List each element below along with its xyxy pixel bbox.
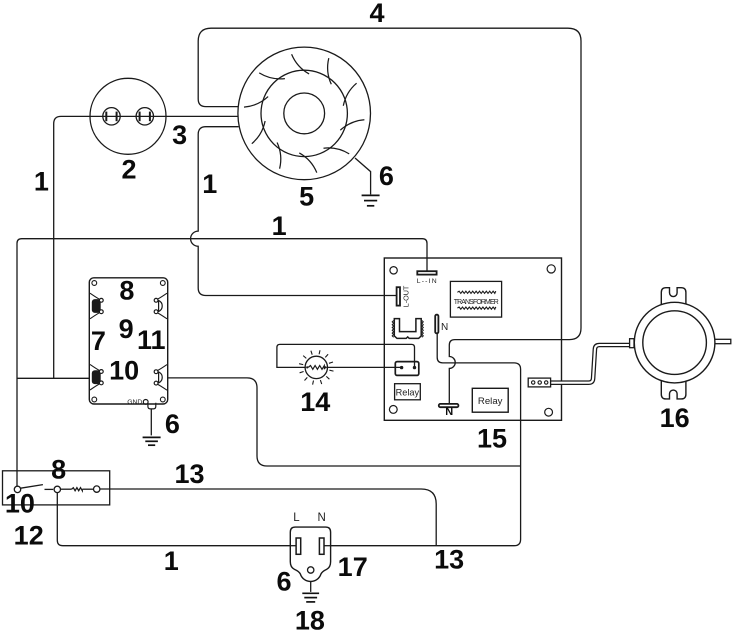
- svg-text:1: 1: [202, 169, 217, 199]
- svg-text:N: N: [318, 512, 326, 524]
- wire: fan ground lead: [355, 158, 371, 194]
- svg-text:L: L: [293, 512, 300, 524]
- L-OUT terminal bar: [397, 287, 400, 305]
- N terminal bar: [435, 315, 438, 334]
- fan blower 5: [238, 47, 371, 180]
- wire 3: plug 2 to fan, wire 1 down left to terminal block row: [54, 116, 239, 378]
- 3-pin connector on board: [528, 378, 550, 387]
- terminal upper-right: [156, 293, 167, 300]
- ground 6: fan motor earth: [362, 195, 380, 205]
- svg-text:10: 10: [109, 356, 139, 386]
- svg-text:L-OUT: L-OUT: [402, 285, 411, 307]
- small texts: [127, 278, 499, 406]
- svg-text:7: 7: [91, 326, 106, 356]
- plug 2: round appliance coupler with two pin receptacles: [90, 78, 166, 154]
- wire: fan bottom terminal down (hop over wire 1) to board L-OUT: [191, 127, 397, 296]
- relay box small: [395, 384, 421, 400]
- svg-text:1: 1: [272, 211, 287, 241]
- wire 1: switch middle terminal down, right to mains plug L slot: [57, 493, 296, 546]
- N bottom terminal bar: [439, 404, 459, 407]
- 2-pin connector on board: [395, 362, 419, 376]
- svg-text:3: 3: [172, 120, 187, 150]
- svg-text:11: 11: [137, 325, 166, 355]
- wire 1: long horizontal feed, left vertical down to switch, right end to board L-IN: [17, 239, 427, 487]
- bottom mounting tab: [661, 378, 686, 399]
- svg-text:12: 12: [14, 521, 44, 551]
- 2-core cable from board 3-pin connector to motor 16: [551, 345, 631, 383]
- switch blade: [21, 485, 43, 489]
- svg-text:6: 6: [165, 409, 180, 439]
- svg-text:GND: GND: [127, 399, 142, 406]
- svg-text:5: 5: [299, 182, 314, 212]
- svg-text:16: 16: [660, 403, 690, 433]
- L-IN terminal bar: [417, 271, 436, 274]
- svg-text:6: 6: [276, 567, 291, 597]
- svg-text:15: 15: [477, 424, 507, 454]
- motor body: [634, 302, 715, 383]
- heatsink bracket: [394, 319, 421, 339]
- thermal fuse: [61, 488, 72, 490]
- svg-text:1: 1: [164, 546, 179, 576]
- control board 15: [384, 258, 561, 420]
- ground 6: terminal block GND earth: [143, 437, 161, 445]
- wire: lamp loop upper run to 2-pin connector right pin: [277, 344, 415, 367]
- ground 18: mains plug earth: [302, 593, 319, 602]
- svg-text:Relay: Relay: [396, 387, 420, 397]
- relay box large: [472, 388, 508, 412]
- svg-text:N: N: [445, 406, 453, 418]
- wire 13: switch fuse terminal right, down to neutral bottom run: [100, 489, 436, 546]
- heatsink fins left: [392, 321, 393, 338]
- lamp 14: [299, 350, 333, 384]
- right stub: [712, 339, 731, 343]
- svg-text:L--IN: L--IN: [417, 278, 438, 285]
- svg-text:8: 8: [119, 276, 134, 306]
- wire: mains plug ground pin lead: [310, 573, 312, 592]
- motor 16: [630, 288, 731, 399]
- terminal lower-left: [90, 364, 100, 371]
- wire: junction to terminal block lower-left terminal: [17, 377, 89, 379]
- wire 4: fan top terminal up, across the top, down right side into board to N bar: [198, 28, 581, 404]
- svg-text:13: 13: [434, 545, 464, 575]
- svg-text:1: 1: [34, 167, 49, 197]
- top mounting tab: [661, 288, 686, 307]
- terminal upper-left: [90, 293, 100, 300]
- svg-text:10: 10: [5, 488, 35, 518]
- svg-text:TRANSFORMER: TRANSFORMER: [454, 299, 499, 306]
- wire: terminal block lower-right terminal right and down to neutral riser: [168, 378, 521, 466]
- svg-text:8: 8: [51, 454, 66, 484]
- terminal block with terminals 7-11: [89, 278, 167, 409]
- svg-text:Relay: Relay: [478, 396, 503, 407]
- svg-text:6: 6: [379, 161, 394, 191]
- svg-text:18: 18: [295, 605, 325, 632]
- wire: terminal block GND lead: [150, 409, 152, 436]
- svg-text:9: 9: [119, 314, 134, 344]
- svg-text:13: 13: [174, 459, 204, 489]
- GND pad on terminal block: [143, 400, 148, 405]
- svg-text:N: N: [441, 322, 448, 333]
- transformer box: [450, 281, 501, 317]
- left connection tab: [630, 339, 634, 348]
- wire: board N terminal down, right, out of board bottom, to mains plug N slot: [324, 333, 521, 545]
- heatsink fins right: [422, 321, 423, 338]
- switch and thermal fuse 12: [3, 471, 110, 505]
- svg-text:4: 4: [369, 0, 384, 28]
- wire: lamp to 2-pin connector left pin: [327, 366, 400, 368]
- svg-text:17: 17: [338, 552, 368, 582]
- terminal lower-right: [156, 365, 167, 372]
- mains plug 17: [290, 527, 330, 581]
- svg-text:14: 14: [300, 387, 330, 417]
- svg-text:2: 2: [121, 155, 136, 185]
